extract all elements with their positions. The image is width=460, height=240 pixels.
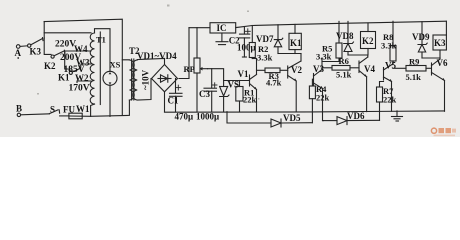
zener VS — [220, 81, 229, 112]
plus sign 100u — [245, 29, 250, 34]
IC regulator box — [210, 23, 236, 33]
terminal B — [17, 113, 20, 116]
svg-text:V1: V1 — [238, 69, 249, 79]
switch K1 pole — [69, 71, 72, 74]
wire: IC left lead — [189, 27, 210, 29]
resistor R6 — [322, 66, 359, 71]
svg-text:W2: W2 — [75, 73, 89, 83]
svg-text:K2: K2 — [362, 36, 374, 46]
zener VD7 — [274, 25, 301, 54]
wire: 220V tap line — [44, 32, 91, 34]
transistor V4 — [359, 55, 368, 112]
svg-text:V3: V3 — [313, 64, 324, 74]
scan specks — [37, 5, 260, 100]
wire: K3 down to K2 pole — [44, 38, 51, 54]
wire: 185V tap line — [81, 64, 91, 68]
wire: T2 secondary top to bridge — [137, 59, 164, 65]
svg-text:3.3k: 3.3k — [257, 53, 273, 63]
svg-text:V6: V6 — [437, 58, 448, 68]
wire: bridge + output to IC input — [179, 28, 189, 79]
resistor R3 — [257, 68, 288, 73]
resistor R9 — [393, 66, 431, 72]
switch K2 contact tick — [64, 50, 66, 53]
svg-text:170V: 170V — [69, 84, 90, 94]
switch K3 blade — [31, 39, 42, 45]
svg-text:100μ: 100μ — [237, 43, 256, 53]
svg-text:IC: IC — [217, 23, 227, 33]
transformer T1 winding — [90, 33, 94, 104]
wire: S to fuse — [60, 115, 69, 117]
wire: K2 contact down to K1 pole — [65, 52, 71, 72]
svg-text:C1: C1 — [168, 96, 179, 106]
diode VD6 — [324, 117, 380, 125]
relay coil K2 — [361, 23, 376, 55]
resistor R8 — [390, 21, 396, 64]
ground — [392, 111, 403, 121]
switch K2 pole — [51, 55, 54, 58]
zener VD9 — [418, 22, 440, 58]
svg-text:T1: T1 — [96, 35, 106, 45]
relay coil K3 — [433, 21, 446, 58]
plus sign C3 — [213, 83, 218, 88]
capacitor C2 — [216, 33, 228, 45]
svg-text:V2: V2 — [291, 65, 302, 75]
wire: rail down to T2 primary top — [122, 59, 129, 61]
svg-text:RP: RP — [184, 64, 195, 74]
relay coil K1 — [289, 24, 301, 53]
svg-text:~10V: ~10V — [141, 69, 151, 90]
transistor V3 — [314, 58, 324, 121]
terminal A — [16, 44, 30, 48]
plus sign C1 — [176, 85, 181, 90]
svg-text:V4: V4 — [364, 64, 375, 74]
transistor V6 — [432, 58, 445, 111]
resistor R7 — [377, 82, 384, 121]
watermark logo — [431, 128, 456, 136]
wire: K3 contact up to top-left rail — [43, 22, 45, 39]
socket XS — [103, 71, 117, 85]
capacitor 100u — [240, 27, 250, 57]
transistor V2 — [288, 54, 301, 112]
transistor V1 — [250, 59, 257, 112]
svg-text:1000μ: 1000μ — [196, 112, 219, 122]
svg-text:A: A — [15, 48, 22, 58]
wire: 200V tap line — [65, 50, 91, 52]
wire: bridge bottom to common rail — [164, 92, 166, 112]
svg-text:K2: K2 — [44, 61, 56, 71]
capacitor C1 — [170, 79, 183, 112]
svg-text:FU: FU — [63, 105, 75, 115]
common rail (ground bus) — [165, 111, 445, 112]
+12V top rail — [236, 21, 447, 27]
svg-text:22k: 22k — [243, 95, 257, 105]
wire: XS bottom down — [109, 85, 111, 116]
svg-text:C3: C3 — [199, 89, 210, 99]
wire: RP wiper to V1 base node — [208, 69, 250, 81]
switch S contact — [58, 110, 60, 113]
svg-text:470μ: 470μ — [175, 112, 194, 122]
transformer T2 secondary winding — [133, 60, 138, 100]
svg-text:V5: V5 — [385, 61, 396, 71]
wire: T2 secondary bottom to bridge left — [137, 79, 151, 101]
resistor R1 — [236, 81, 243, 112]
diode VD5 — [227, 112, 312, 127]
svg-text:XS: XS — [110, 60, 121, 70]
svg-text:VS: VS — [228, 80, 240, 90]
switch K2 blade — [54, 51, 64, 56]
svg-text:R9: R9 — [409, 57, 419, 67]
svg-text:5.1k: 5.1k — [336, 70, 352, 80]
transistor V5 — [384, 61, 394, 111]
switch S blade — [49, 110, 58, 114]
svg-text:3.3k: 3.3k — [316, 52, 332, 62]
resistor R5 — [322, 21, 342, 61]
wire: bottom return to T2 — [91, 100, 130, 116]
wire: B to switch S — [21, 114, 50, 115]
switch K1 blade — [72, 68, 80, 72]
svg-text:VD9: VD9 — [412, 32, 430, 42]
svg-text:VD5: VD5 — [283, 113, 301, 123]
svg-text:K3: K3 — [30, 46, 42, 56]
svg-text:K3: K3 — [434, 38, 446, 48]
svg-text:VD8: VD8 — [336, 31, 354, 41]
svg-text:VD6: VD6 — [347, 111, 365, 121]
wire: fuse to T1 winding bottom — [91, 104, 95, 116]
svg-text:K1: K1 — [290, 38, 302, 48]
transformer T1 core line — [99, 32, 101, 105]
svg-text:4.7k: 4.7k — [266, 78, 282, 88]
capacitor C3 — [204, 69, 217, 112]
wire: top-left rail — [44, 19, 122, 115]
svg-text:22k: 22k — [383, 95, 397, 105]
svg-text:R6: R6 — [339, 56, 349, 66]
svg-text:5.1k: 5.1k — [406, 72, 422, 82]
svg-text:VD7: VD7 — [256, 34, 274, 44]
wire: T1 top to XS stem — [95, 29, 111, 72]
svg-text:S: S — [50, 105, 55, 115]
svg-text:W1: W1 — [76, 104, 90, 114]
svg-text:3.3k: 3.3k — [381, 41, 397, 51]
dot under A — [17, 57, 19, 59]
wire: 170V tap line with open contact — [77, 81, 91, 83]
transformer T2 primary winding — [129, 60, 134, 100]
zener VD8 — [344, 21, 368, 55]
resistor R2 — [249, 26, 256, 59]
transformer T2 core — [132, 59, 134, 100]
svg-text:B: B — [16, 104, 22, 114]
resistor R4 — [309, 79, 315, 123]
potentiometer RP — [194, 28, 208, 112]
fuse FU W1 — [69, 113, 91, 119]
bridge rectifier VD1-VD4 — [152, 65, 178, 92]
switch K3 contact tick — [42, 38, 45, 41]
